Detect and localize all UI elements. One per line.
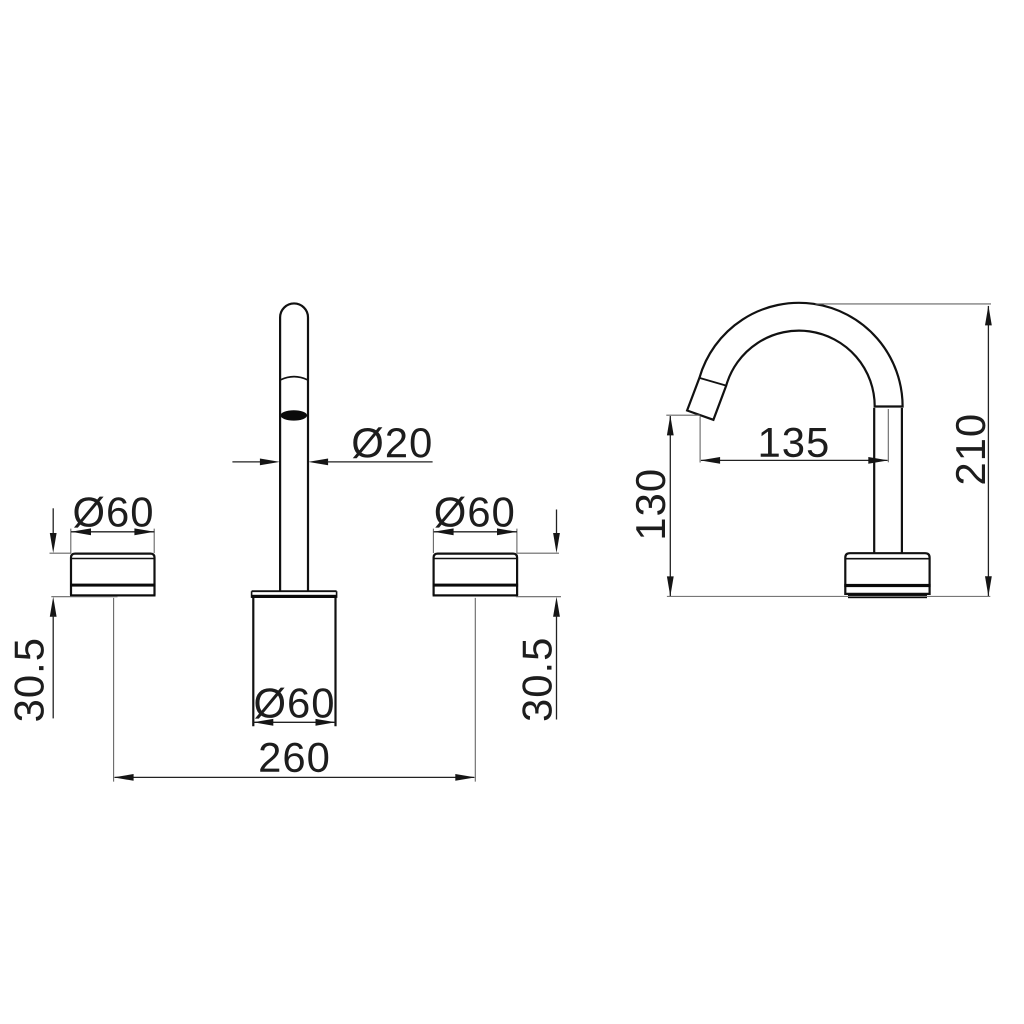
- spout pipe (front view): [280, 303, 308, 591]
- dimension Ø60 (right handle): [433, 497, 517, 553]
- text Ø60 label: [255, 688, 333, 719]
- text 30.5 label: [14, 640, 44, 721]
- base (side view): [844, 553, 930, 598]
- dimension 210 (spout height, side view): [815, 304, 991, 596]
- text Ø20 label: [353, 427, 431, 458]
- text 260 label: [260, 743, 328, 773]
- dimension 130 (outlet height, side view): [636, 415, 700, 596]
- text Ø60 label: [74, 497, 152, 528]
- riser pipe (side view): [874, 408, 902, 554]
- gooseneck spout tube (side view): [687, 303, 903, 420]
- spout outlet ellipse (front view): [281, 410, 308, 420]
- text Ø60 label: [435, 497, 513, 528]
- text 30.5 label: [522, 639, 552, 720]
- spout base column Ø60 (front view): [253, 598, 335, 726]
- spout aerator seam arc (front view): [281, 377, 308, 380]
- ground line (side view): [667, 595, 990, 597]
- dimension 260 (handle spacing): [114, 598, 476, 782]
- dimension 30.5 (right handle height): [516, 510, 561, 721]
- text 210 label: [956, 415, 986, 483]
- dimension Ø60 (left handle): [71, 497, 155, 553]
- dimension Ø20 (front spout pipe): [232, 427, 432, 465]
- spout base flange (front view): [252, 591, 337, 598]
- dimension 135 (spout reach, side view): [700, 409, 888, 464]
- aerator joint line (side view): [699, 378, 726, 386]
- left handle (front view): [70, 554, 156, 597]
- text 130 label: [636, 471, 666, 538]
- right handle (front view): [433, 554, 518, 597]
- text 135 label: [761, 428, 828, 458]
- dimension Ø60 (front base column): [253, 688, 335, 726]
- dimension 30.5 (left handle height): [14, 508, 117, 720]
